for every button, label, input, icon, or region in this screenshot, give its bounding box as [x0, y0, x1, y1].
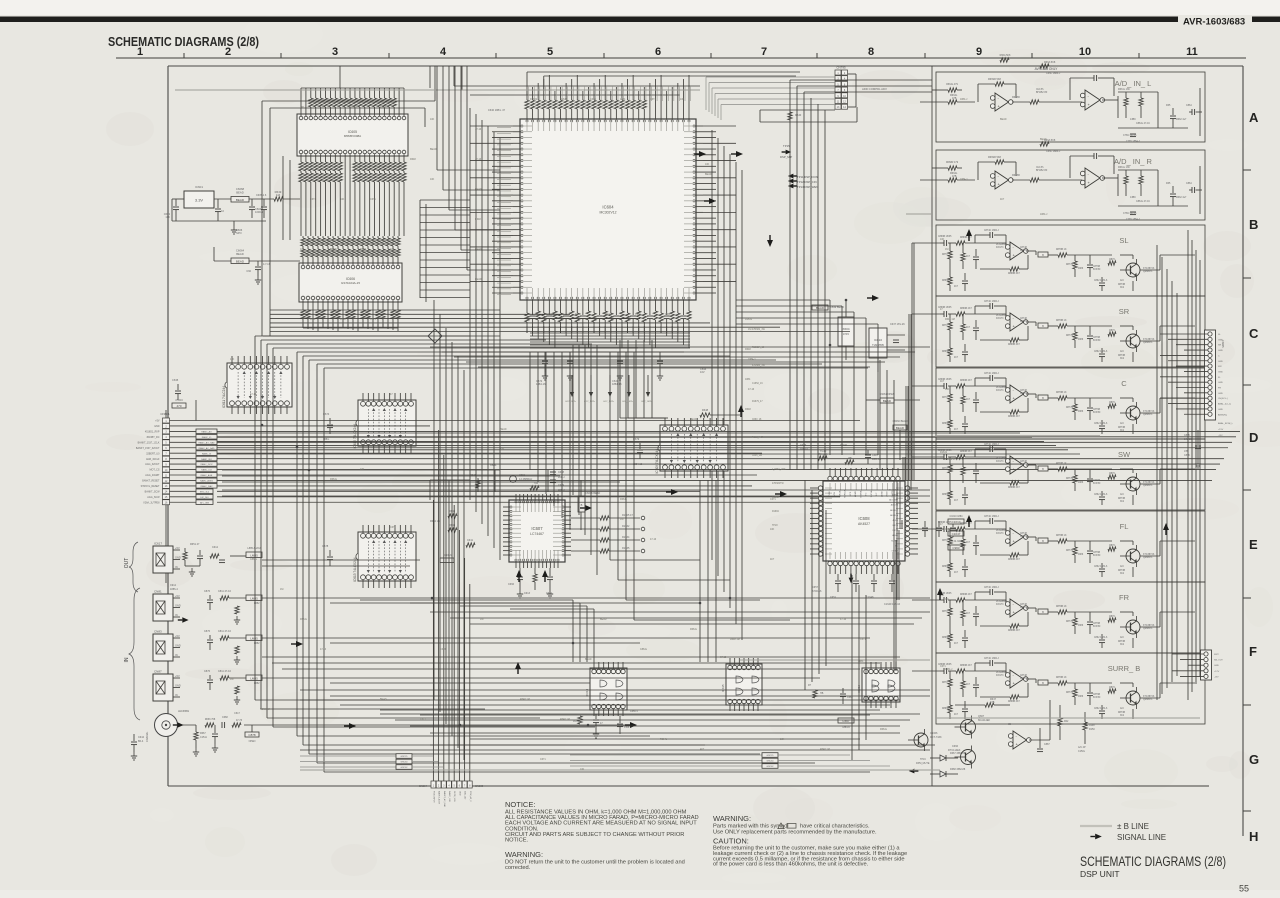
svg-text:CN83: CN83	[154, 630, 162, 634]
svg-text:5: 5	[547, 46, 553, 58]
svg-text:SUTRD: SUTRD	[891, 540, 898, 542]
svg-text:10K: 10K	[770, 528, 775, 531]
svg-text:47-16: 47-16	[650, 538, 657, 541]
svg-text:R869B 4K7: R869B 4K7	[960, 523, 972, 525]
svg-text:DSP_MIP: DSP_MIP	[780, 155, 792, 159]
wire ladder left of IC604	[420, 200, 470, 302]
svg-text:BH452 8F: BH452 8F	[1036, 91, 1048, 94]
svg-text:C671: C671	[635, 313, 641, 316]
resistor R647	[955, 698, 1010, 707]
decoupling capacitors below IC604	[536, 352, 707, 386]
wire bus IC608 to channel rows	[896, 243, 914, 671]
gray net labels left of CN604	[300, 754, 443, 770]
svg-text:GND: GND	[175, 556, 181, 560]
page number 55	[1239, 884, 1249, 894]
resistor R649	[274, 190, 300, 201]
svg-text:R873B: R873B	[1118, 355, 1125, 357]
svg-text:C876B: C876B	[1093, 409, 1100, 411]
svg-text:A/U: A/U	[1120, 636, 1124, 639]
svg-text:R648: R648	[575, 313, 581, 316]
svg-text:C646_1M: C646_1M	[752, 455, 762, 457]
resistor R648 above IC609	[700, 408, 740, 417]
svg-text:C862 1884-6: C862 1884-6	[1094, 566, 1108, 568]
svg-text:E: E	[1249, 537, 1258, 552]
coax jack JACK581	[146, 709, 196, 742]
svg-text:QMM4TL: QMM4TL	[1143, 557, 1153, 559]
svg-text:4K7: 4K7	[954, 714, 959, 716]
svg-text:LM85: LM85	[250, 553, 258, 557]
svg-text:8V3/50: 8V3/50	[1093, 555, 1101, 557]
svg-text:GND: GND	[1218, 409, 1223, 411]
svg-text:SUTR_1GB: SUTR_1GB	[453, 791, 455, 802]
svg-text:LM85: LM85	[250, 596, 258, 600]
svg-text:1W-16: 1W-16	[1020, 393, 1027, 395]
svg-text:BH452 8F: BH452 8F	[1036, 169, 1048, 172]
svg-text:SUPLLA: SUPLLA	[844, 489, 847, 497]
svg-text:C876: C876	[204, 670, 211, 673]
svg-text:GND: GND	[1218, 393, 1223, 395]
svg-text:C874C 1884-J: C874C 1884-J	[984, 587, 999, 589]
svg-text:BEAD: BEAD	[330, 248, 337, 251]
svg-text:1884-J: 1884-J	[960, 178, 968, 181]
svg-text:R878B 1K: R878B 1K	[1056, 677, 1067, 679]
svg-text:R1632: R1632	[940, 451, 948, 454]
svg-text:L885 A-20U: L885 A-20U	[247, 547, 260, 550]
svg-text:R664L: R664L	[660, 738, 668, 741]
svg-text:+5V: +5V	[175, 634, 180, 638]
wire harness from CN601	[170, 421, 1241, 503]
svg-text:C6060 BEAD: C6060 BEAD	[893, 420, 908, 423]
svg-text:C887: C887	[1044, 743, 1050, 746]
svg-text:TP18: TP18	[772, 525, 778, 527]
connector CN795	[835, 66, 887, 110]
svg-text:R878B 1K: R878B 1K	[1056, 320, 1067, 322]
svg-text:OPEN: OPEN	[249, 740, 256, 743]
svg-text:MC302V12: MC302V12	[600, 211, 617, 215]
svg-text:C1652_16: C1652_16	[752, 383, 763, 385]
svg-text:A/D_ IN_ R: A/D_ IN_ R	[1114, 157, 1153, 166]
IN optical connector 1	[153, 590, 181, 622]
svg-text:R648 1M: R648 1M	[260, 708, 270, 711]
svg-text:C1610 1884: C1610 1884	[949, 515, 963, 518]
IC IC613 74LCX244 buffer	[353, 525, 416, 588]
svg-text:C668: C668	[222, 716, 228, 719]
svg-text:BANKT_SCW: BANKT_SCW	[145, 490, 161, 493]
main schematic frame border	[168, 66, 1243, 836]
capacitors below IC607	[508, 568, 553, 598]
svg-text:10K: 10K	[945, 528, 950, 531]
svg-text:R866B: R866B	[942, 351, 949, 353]
IC IC608 AK4527 DAC (QFP circled pins)	[810, 468, 918, 574]
svg-text:GND: GND	[1218, 382, 1223, 384]
svg-text:R869B 4K7: R869B 4K7	[960, 594, 972, 596]
svg-text:R150: R150	[1089, 728, 1095, 731]
svg-text:R669R 5K8: R669R 5K8	[988, 156, 1002, 159]
svg-text:C1511: C1511	[200, 736, 208, 739]
NOTICE text block	[505, 800, 699, 844]
resistor arrays below IC605	[299, 160, 406, 184]
svg-text:!: !	[783, 825, 784, 829]
svg-text:R669R 5K8: R669R 5K8	[988, 78, 1002, 81]
svg-text:1886: 1886	[1078, 696, 1084, 698]
svg-text:IC8173: IC8173	[996, 675, 1004, 677]
IN filter parts row1	[204, 590, 330, 704]
svg-text:C874C 1884-J: C874C 1884-J	[984, 373, 999, 375]
svg-text:R66A 5K8: R66A 5K8	[1044, 61, 1056, 64]
svg-text:COAXIAL: COAXIAL	[146, 731, 149, 742]
IN optical connector 3	[153, 670, 181, 702]
svg-text:IN: IN	[175, 565, 178, 569]
A/D_IN_R input section	[920, 139, 1205, 221]
svg-text:WARNING:: WARNING:	[505, 850, 543, 859]
svg-text:C663: C663	[847, 696, 853, 699]
svg-text:R873B: R873B	[1118, 570, 1125, 572]
svg-text:1M: 1M	[945, 248, 948, 251]
svg-text:BEAD: BEAD	[236, 259, 245, 263]
capacitors below IC608	[812, 574, 901, 606]
svg-text:8: 8	[868, 46, 874, 58]
svg-text:GRC25: GRC25	[767, 755, 775, 757]
svg-text:10K: 10K	[940, 238, 945, 241]
svg-text:D: D	[1249, 430, 1258, 445]
svg-text:R873B: R873B	[1118, 284, 1125, 286]
svg-text:BEAD: BEAD	[236, 252, 244, 256]
svg-text:10K: 10K	[230, 358, 235, 361]
svg-text:TP12 DSP_CIN: TP12 DSP_CIN	[797, 180, 817, 184]
svg-text:1M: 1M	[620, 518, 623, 521]
svg-text:13BK: 13BK	[1130, 196, 1136, 199]
resistors near top-right of frame	[932, 54, 1011, 170]
arrows center-right	[515, 405, 787, 674]
svg-text:10K: 10K	[705, 163, 710, 166]
svg-text:1886: 1886	[1078, 339, 1084, 341]
wire bus QFP right to DAC	[736, 300, 878, 455]
svg-text:4K7: 4K7	[954, 572, 959, 574]
svg-text:R648: R648	[475, 218, 481, 221]
svg-text:RAMC_IO2: RAMC_IO2	[201, 469, 212, 472]
svg-text:C671: C671	[540, 758, 546, 761]
IC IC612 74LCX244 buffer	[353, 393, 416, 453]
transistor Q606	[948, 745, 976, 769]
svg-text:BEAD: BEAD	[600, 618, 607, 621]
svg-text:47-16: 47-16	[475, 128, 482, 131]
svg-text:R869B 4K7: R869B 4K7	[960, 380, 972, 382]
svg-text:G: G	[1249, 752, 1259, 767]
svg-text:HB: HB	[820, 692, 824, 695]
svg-text:BEAD: BEAD	[475, 188, 482, 191]
svg-text:IC611 74LC244: IC611 74LC244	[222, 386, 226, 408]
model number AVR-1603/683	[1183, 17, 1245, 28]
pin name text band left of IC604	[497, 128, 511, 295]
svg-text:GND: GND	[175, 684, 181, 688]
svg-text:GND: GND	[175, 644, 181, 648]
svg-text:SURR_ B: SURR_ B	[1108, 664, 1141, 673]
svg-text:C876B: C876B	[1093, 266, 1100, 268]
svg-text:8V3/50: 8V3/50	[1093, 269, 1101, 271]
svg-text:C874C 1884-J: C874C 1884-J	[984, 230, 999, 232]
channel filter section C	[936, 368, 1205, 439]
svg-text:BEAD: BEAD	[430, 148, 437, 151]
scattered component value labels	[230, 98, 1007, 668]
svg-text:RAMC_ISO: RAMC_ISO	[201, 458, 212, 461]
svg-text:IC612 74LCX244: IC612 74LCX244	[353, 424, 357, 449]
IC IC606 GS71024A (SRAM)	[299, 259, 402, 306]
wires into CN606	[1172, 654, 1204, 676]
net labels on CN601 wires	[196, 429, 217, 504]
svg-text:C8748: C8748	[1020, 461, 1027, 463]
svg-text:10K: 10K	[780, 738, 785, 741]
svg-text:AVR1583 ONLY: AVR1583 ONLY	[1035, 67, 1059, 71]
svg-text:PCM_INPUT: PCM_INPUT	[432, 791, 434, 803]
svg-text:C641: C641	[467, 539, 474, 542]
svg-text:10K: 10K	[500, 448, 505, 451]
svg-text:C862 1884-6: C862 1884-6	[1094, 637, 1108, 639]
svg-text:TP16: TP16	[920, 758, 926, 761]
svg-text:13BK: 13BK	[1130, 118, 1136, 121]
svg-text:C8748: C8748	[1020, 675, 1027, 677]
transistor Q604 bottom center	[908, 729, 942, 751]
svg-text:1W-16: 1W-16	[1020, 250, 1027, 252]
svg-text:CS616 BEAD: CS616 BEAD	[585, 492, 600, 495]
svg-text:C644: C644	[138, 736, 145, 739]
svg-text:1886: 1886	[1078, 625, 1084, 627]
wire bus bottom horizontal	[300, 700, 935, 750]
collector bus right of channel rows	[1157, 245, 1177, 700]
svg-text:C769 16V35: C769 16V35	[1123, 212, 1137, 215]
arrows below IC607	[516, 570, 548, 582]
svg-text:8B: 8B	[1008, 723, 1011, 726]
svg-text:4K7: 4K7	[966, 542, 971, 544]
wires up from CN604	[433, 430, 469, 781]
svg-text:1884-J: 1884-J	[960, 98, 968, 101]
svg-text:R878B 1K: R878B 1K	[1056, 606, 1067, 608]
svg-text:PCM_AF_V: PCM_AF_V	[469, 791, 472, 802]
svg-text:MCS: MCS	[850, 491, 852, 496]
svg-text:C656 4: C656 4	[630, 710, 638, 713]
svg-text:DTC114EK: DTC114EK	[948, 749, 961, 752]
svg-text:BEAD: BEAD	[896, 426, 905, 430]
svg-text:M5M5V008A: M5M5V008A	[344, 134, 361, 138]
resistor array above IC604	[525, 95, 689, 112]
svg-text:C645: C645	[872, 454, 878, 457]
svg-text:C811 47-16: C811 47-16	[218, 630, 231, 633]
svg-text:IN: IN	[124, 657, 130, 662]
svg-text:RAMC_1UD: RAMC_1UD	[448, 791, 451, 803]
svg-text:IC607: IC607	[531, 526, 543, 531]
svg-text:C660_18: C660_18	[752, 419, 762, 421]
svg-text:C613: C613	[524, 592, 531, 595]
svg-text:R877B: R877B	[1066, 478, 1073, 480]
svg-text:BANKT_1537_32OUT: BANKT_1537_32OUT	[136, 447, 160, 450]
svg-text:R877B: R877B	[1066, 335, 1073, 337]
svg-text:FL: FL	[1120, 522, 1129, 531]
svg-text:10: 10	[1079, 46, 1091, 58]
svg-text:R876: R876	[1109, 687, 1115, 689]
svg-text:4K7: 4K7	[954, 357, 959, 359]
capacitor C679 near IC609	[633, 437, 643, 466]
svg-text:BEAD: BEAD	[705, 173, 712, 176]
svg-text:C1648: C1648	[866, 596, 874, 599]
pin name stubs inside IC608	[829, 489, 899, 552]
svg-text:8V3/50: 8V3/50	[1093, 412, 1101, 414]
svg-text:4516BT_DC: 4516BT_DC	[146, 436, 159, 439]
svg-text:R873B: R873B	[1118, 498, 1125, 500]
svg-text:GND: GND	[1214, 665, 1219, 667]
svg-text:BEAD: BEAD	[236, 198, 245, 202]
bead R660	[893, 420, 908, 460]
svg-text:47B: 47B	[952, 97, 957, 100]
svg-text:IC8173: IC8173	[996, 604, 1004, 606]
capacitor C602	[215, 204, 224, 221]
svg-text:CN795: CN795	[836, 66, 846, 70]
svg-text:PLN2858: PLN2858	[996, 244, 1006, 246]
svg-text:NPO: NPO	[236, 231, 242, 235]
svg-text:R876: R876	[1109, 402, 1115, 404]
svg-text:C876B: C876B	[1093, 694, 1100, 696]
svg-text:C635: C635	[172, 378, 179, 382]
up arrows in channel section	[937, 229, 1169, 600]
svg-text:C671: C671	[310, 198, 316, 201]
svg-text:R877B: R877B	[1066, 621, 1073, 623]
svg-text:R631L 13K: R631L 13K	[1118, 88, 1130, 91]
svg-text:R648 1M: R648 1M	[820, 748, 830, 751]
svg-text:47-16: 47-16	[380, 106, 387, 109]
svg-text:R664L: R664L	[880, 728, 888, 731]
signal arrow right of IC607	[580, 505, 592, 511]
svg-text:RAMC_ISO2: RAMC_ISO2	[200, 463, 213, 466]
svg-text:IN: IN	[175, 653, 178, 657]
svg-text:C8748: C8748	[1020, 390, 1027, 392]
svg-text:BEAD: BEAD	[585, 658, 592, 661]
svg-text:C963: C963	[952, 546, 960, 550]
channel filter section SW	[936, 439, 1205, 510]
svg-text:R876: R876	[1109, 616, 1115, 618]
svg-text:C864L 47-16: C864L 47-16	[1136, 122, 1150, 125]
capacitor C676 near IC611	[172, 378, 186, 408]
svg-text:+5V: +5V	[175, 674, 180, 678]
IC IC616 74LC14 logic	[857, 662, 900, 708]
wire bus top-left verticals	[434, 66, 500, 760]
svg-text:R868B 4K7: R868B 4K7	[1008, 630, 1020, 632]
svg-text:GND: GND	[1218, 371, 1223, 373]
svg-text:BEAD: BEAD	[500, 428, 507, 431]
IC IC610 oscillator	[869, 323, 905, 372]
svg-text:R66A 5K8: R66A 5K8	[1000, 54, 1011, 57]
svg-text:1W-16: 1W-16	[1020, 536, 1027, 538]
svg-text:DO NOT return the unit to the: DO NOT return the unit to the customer u…	[505, 860, 685, 866]
page title SCHEMATIC DIAGRAMS (2/8)	[108, 34, 259, 49]
svg-text:R866B: R866B	[942, 566, 949, 568]
svg-text:AVR-1603/683: AVR-1603/683	[1183, 17, 1245, 28]
svg-text:NOTICE:: NOTICE:	[505, 800, 535, 809]
svg-text:BEAD: BEAD	[380, 698, 387, 701]
svg-text:IC617: IC617	[154, 542, 162, 546]
svg-text:SCHEMATIC DIAGRAMS (2/8): SCHEMATIC DIAGRAMS (2/8)	[108, 34, 259, 49]
svg-text:+5V: +5V	[175, 546, 180, 550]
svg-text:BEAD: BEAD	[475, 248, 482, 251]
svg-text:R1632A_16: R1632A_16	[752, 346, 765, 349]
svg-text:4K7: 4K7	[954, 500, 959, 502]
svg-text:3.5V: 3.5V	[843, 332, 849, 336]
svg-text:AMIX(R-): AMIX(R-)	[1218, 413, 1227, 416]
svg-text:R870: R870	[942, 254, 948, 256]
svg-text:R1632: R1632	[350, 106, 358, 109]
svg-text:VSS: VSS	[834, 491, 836, 496]
crystal X603	[812, 300, 854, 360]
svg-text:SW: SW	[1118, 450, 1131, 459]
svg-text:BEAD: BEAD	[1040, 138, 1047, 141]
svg-text:RAMC_AGE: RAMC_AGE	[201, 474, 213, 477]
svg-text:D668 4582-88: D668 4582-88	[950, 768, 966, 771]
column ruler line	[116, 57, 1246, 59]
svg-text:10K: 10K	[580, 768, 585, 771]
wire bus mid horizontal (below SRAM)	[270, 310, 850, 332]
svg-text:ERC_3u2: ERC_3u2	[200, 491, 210, 493]
svg-text:R878B 1K: R878B 1K	[1056, 463, 1067, 465]
svg-text:10K: 10K	[945, 388, 950, 391]
svg-text:1886-4: 1886-4	[170, 588, 178, 591]
svg-text:A/U: A/U	[1120, 565, 1124, 568]
bead CS616 right of IC607	[578, 480, 600, 530]
svg-text:PLN2858: PLN2858	[996, 601, 1006, 603]
svg-text:GND: GND	[1218, 361, 1223, 363]
svg-text:GND: GND	[458, 791, 460, 796]
svg-text:R35: R35	[1166, 104, 1171, 107]
svg-text:MOT_CS: MOT_CS	[150, 469, 160, 472]
svg-text:IC613 74LCX244: IC613 74LCX244	[353, 557, 357, 582]
svg-text:CH(SCL-): CH(SCL-)	[1218, 398, 1228, 400]
bottom subtitle DSP UNIT	[1080, 869, 1120, 879]
wire bus QFP verticals down	[530, 352, 790, 620]
crystal X601 circuit above IC607	[430, 463, 565, 500]
resistor array above IC605	[301, 92, 404, 110]
svg-text:CN604: CN604	[419, 784, 428, 788]
IC IC615 74HC00 logic	[721, 658, 762, 711]
svg-text:1M: 1M	[480, 618, 483, 621]
arrows near IC604	[694, 151, 879, 301]
svg-text:10K: 10K	[430, 118, 435, 121]
svg-text:47-16: 47-16	[475, 158, 482, 161]
svg-text:C150L: C150L	[1078, 750, 1086, 753]
svg-text:47-16: 47-16	[720, 656, 727, 659]
svg-text:R868B 4K7: R868B 4K7	[1008, 416, 1020, 418]
svg-text:JACK581: JACK581	[178, 709, 190, 713]
svg-text:C605-1.6: C605-1.6	[256, 194, 267, 197]
svg-text:100: 100	[300, 106, 305, 109]
svg-text:SIGNAL LINE: SIGNAL LINE	[1117, 833, 1166, 842]
svg-text:BEAD: BEAD	[475, 278, 482, 281]
svg-text:1886: 1886	[1078, 268, 1084, 270]
svg-text:C876B: C876B	[1093, 623, 1100, 625]
svg-text:C657: C657	[812, 586, 819, 589]
svg-text:4K7: 4K7	[770, 558, 775, 561]
svg-text:LC74467: LC74467	[530, 532, 544, 536]
capacitor C605	[256, 194, 267, 218]
svg-text:C862 1884-6: C862 1884-6	[1094, 423, 1108, 425]
svg-text:4K7: 4K7	[954, 286, 959, 288]
capacitor C678 near IC613	[322, 544, 333, 566]
svg-text:DIC_ISO: DIC_ISO	[200, 497, 209, 499]
svg-text:47-16: 47-16	[748, 388, 755, 391]
svg-text:C6013: C6013	[444, 554, 452, 557]
svg-text:QMM4TL: QMM4TL	[1143, 414, 1153, 416]
capacitor C604	[249, 199, 264, 218]
svg-text:R878B 1K: R878B 1K	[1056, 392, 1067, 394]
svg-text:C811 47-16: C811 47-16	[218, 590, 231, 593]
svg-text:3: 3	[332, 46, 338, 58]
svg-text:GS71024A-15: GS71024A-15	[341, 281, 360, 285]
svg-text:R877B: R877B	[1066, 692, 1073, 694]
